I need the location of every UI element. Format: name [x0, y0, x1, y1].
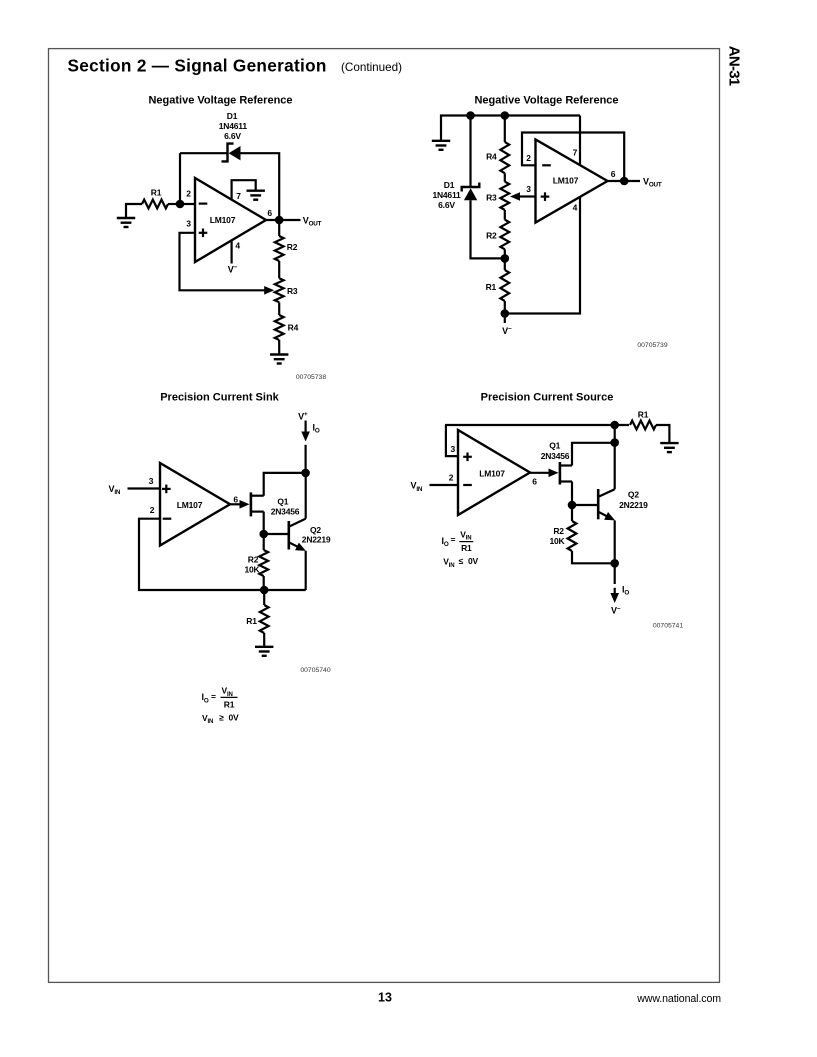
wire junction to R1 [504, 258, 506, 270]
svg-text:≥: ≥ [219, 712, 224, 722]
U3 plus symbol (pin 3) [162, 488, 171, 490]
wire U4 output to Q1 gate [530, 472, 551, 474]
ground symbol (circuit 3) [255, 647, 273, 656]
svg-text:2N3456: 2N3456 [541, 451, 570, 461]
wire Q2 base [264, 533, 288, 535]
zener diode D1 1N4611 (vertical) [462, 183, 480, 201]
ground symbol bottom of divider [270, 355, 288, 364]
svg-text:3: 3 [186, 219, 191, 229]
wire V- rail to U2 pin 4 [505, 197, 580, 313]
arrow into Q1 gate [240, 500, 250, 509]
svg-text:Precision Current Source: Precision Current Source [481, 391, 614, 403]
svg-text:2: 2 [186, 188, 191, 198]
node: R1 / feedback junction [610, 421, 619, 430]
svg-text:(Continued): (Continued) [341, 61, 402, 74]
Q2 emitter arrow [295, 543, 306, 551]
U1 plus symbol (pin 3 non-inverting) [199, 232, 208, 234]
wire R1 to ground [263, 633, 265, 647]
op-amp U1 LM107 [195, 178, 266, 262]
wire arrow to top node [305, 445, 307, 473]
node: output junction (circuit 2) [620, 177, 629, 186]
wire node down to R1 [263, 590, 265, 605]
wire R4 to ground [278, 340, 280, 355]
wire from input ground up to R1 [126, 204, 142, 218]
wire top rail to R1 [445, 424, 629, 426]
equation VIN <= 0V (circuit 4) [443, 556, 478, 569]
node: divider branch junction on rail [501, 111, 510, 120]
svg-text:R2: R2 [248, 555, 259, 565]
svg-text:3: 3 [451, 444, 456, 454]
svg-text:2: 2 [150, 505, 155, 515]
wire drain branch to Q1 [572, 443, 615, 466]
transistor Q2 2N2219 (NPN, circuit 4) [598, 489, 615, 519]
resistor R2 (circuit 2) [500, 220, 509, 250]
wire U3 pin 2 feedback to bottom rail [139, 519, 264, 590]
resistor R2 10K (circuit 3) [259, 550, 268, 576]
wire Q2 emitter down to bottom rail [305, 551, 307, 590]
current arrow IO (circuit 4) [610, 593, 619, 603]
current arrow IO shaft (circuit 4) [614, 588, 616, 594]
node: output junction [275, 216, 284, 225]
svg-text:Precision Current Sink: Precision Current Sink [160, 391, 279, 403]
wire node to R2 bottom [263, 576, 265, 590]
equation IO = VIN / R1 (circuit 3) [202, 686, 238, 710]
node: emitter / R2 bottom junction [610, 559, 619, 568]
op-amp U4 LM107 [458, 430, 530, 515]
wire output node down to R2 [278, 220, 280, 236]
potentiometer R3 (circuit 2) [500, 182, 509, 210]
wire node to U1 pin 2 [180, 203, 195, 205]
wire VIN to U3 pin 3 [128, 487, 161, 489]
svg-text:R3: R3 [486, 192, 497, 202]
svg-text:6: 6 [532, 476, 537, 486]
wire output pin 6 to Vout [266, 219, 301, 221]
wire rail down to R4 [504, 116, 506, 143]
svg-text:LM107: LM107 [479, 469, 505, 479]
svg-text:R2: R2 [486, 230, 497, 240]
svg-text:00705740: 00705740 [300, 667, 330, 674]
node: Q1 source / Q2 base / R2 junction [259, 530, 268, 539]
svg-text:www.national.com: www.national.com [636, 993, 721, 1005]
op-amp U2 LM107 [536, 140, 608, 223]
svg-text:2: 2 [449, 472, 454, 482]
node: inverting input junction [176, 200, 185, 209]
svg-text:3: 3 [149, 476, 154, 486]
U4 minus symbol (pin 2) [463, 484, 472, 486]
wire U1 pin7 to ground [232, 180, 256, 199]
transistor Q2 2N2219 (NPN) [289, 519, 306, 550]
wire VIN to U4 pin 2 [430, 484, 459, 486]
svg-text:6: 6 [233, 494, 238, 504]
svg-text:3: 3 [526, 184, 531, 194]
wire U1 pin3 feedback to R3 wiper [180, 233, 265, 290]
wire R1 to V- node [504, 301, 506, 314]
node: zener branch junction on rail [466, 111, 475, 120]
svg-text:Negative Voltage Reference: Negative Voltage Reference [148, 94, 292, 106]
Q2 emitter arrow (circuit 4) [604, 512, 615, 520]
svg-text:4: 4 [573, 202, 578, 212]
resistor R4 [275, 315, 284, 340]
svg-text:=: = [451, 535, 456, 545]
wire R4 to R3 [504, 173, 506, 182]
wire top feedback rail left segment [180, 152, 228, 154]
resistor R1 (circuit 2) [500, 270, 509, 301]
svg-text:6: 6 [267, 208, 272, 218]
zener diode D1 1N4611 [222, 144, 241, 162]
wire R1 to ground corner [656, 425, 669, 443]
wire Q2 base (circuit 4) [572, 504, 597, 506]
wire R2 top to node [263, 534, 265, 550]
svg-text:2N2219: 2N2219 [619, 500, 648, 510]
svg-text:10K: 10K [245, 565, 261, 575]
ground symbol at pin 7 [247, 191, 265, 200]
svg-text:R1: R1 [638, 409, 649, 419]
svg-text:1N4611: 1N4611 [219, 121, 248, 131]
svg-text:4: 4 [235, 241, 240, 251]
U4 plus symbol (pin 3) [463, 456, 472, 458]
svg-text:00705738: 00705738 [296, 374, 326, 381]
svg-text:6: 6 [611, 169, 616, 179]
resistor R2 10K (circuit 4) [568, 521, 577, 551]
wire R2 down to junction [504, 249, 506, 258]
wire U4 pin 3 up to top rail [446, 425, 458, 456]
wire R2 top to node [571, 505, 573, 521]
wire U3 output to Q1 gate [230, 503, 242, 505]
wire bottom rail right segment [264, 589, 306, 591]
wire node up to zener feedback rail [179, 153, 181, 204]
svg-text:R4: R4 [288, 323, 299, 333]
page border frame [49, 49, 720, 983]
wire Q2 collector up to node [305, 473, 307, 519]
svg-text:1N4611: 1N4611 [432, 190, 461, 200]
node: Q1 drain junction [610, 438, 619, 447]
arrow into Q1 gate (circuit 4) [549, 469, 559, 478]
svg-text:D1: D1 [227, 111, 238, 121]
resistor R1 (input) [142, 200, 168, 209]
svg-text:D1: D1 [444, 180, 455, 190]
wire zener anode down to lower junction [471, 200, 505, 258]
svg-text:R1: R1 [461, 543, 472, 553]
wire U2 pin 2 feedback loop to output [522, 133, 624, 182]
wire IO output stub down [614, 563, 616, 584]
wire top ground rail [441, 116, 580, 141]
wire Q2 emitter down to IO node [614, 520, 616, 563]
svg-text:0V: 0V [229, 712, 240, 722]
resistor R4 (circuit 2) [500, 142, 509, 173]
svg-text:Q2: Q2 [628, 490, 639, 500]
U2 plus symbol (pin 3) [541, 196, 550, 198]
svg-text:R1: R1 [246, 616, 257, 626]
svg-text:13: 13 [378, 991, 392, 1005]
wire node down collector branch [614, 425, 616, 489]
wire R1 to inverting node [168, 203, 180, 205]
wire U2 output to Vout [608, 180, 641, 182]
transistor Q1 2N3456 (FET) [251, 492, 264, 516]
svg-text:10K: 10K [550, 536, 566, 546]
svg-text:7: 7 [573, 147, 578, 157]
svg-text:2N2219: 2N2219 [302, 534, 331, 544]
wire U1 pin4 to V- [231, 240, 233, 263]
svg-text:AN-31: AN-31 [726, 46, 743, 86]
svg-text:R1: R1 [224, 700, 235, 710]
current arrow IO (circuit 3) [301, 432, 310, 442]
potentiometer R3 [275, 278, 284, 302]
resistor R1 (circuit 4, horizontal) [630, 421, 656, 430]
equation VIN >= 0V (circuit 3) [202, 712, 239, 725]
ground symbol top-left rail [432, 141, 450, 150]
svg-text:Q1: Q1 [549, 441, 560, 451]
svg-text:R2: R2 [553, 526, 564, 536]
node: zener/divider junction [501, 254, 510, 263]
R3 wiper arrow [264, 286, 274, 295]
U2 minus symbol (pin 2) [542, 164, 551, 166]
U3 minus symbol (pin 2) [163, 518, 172, 520]
svg-text:R1: R1 [151, 187, 162, 197]
transistor Q1 2N3456 (FET, circuit 4) [560, 462, 572, 485]
U1 minus symbol (pin 2 inverting) [199, 203, 208, 205]
wire V- node stub down [504, 314, 506, 324]
wire Q1 source down to base node [263, 512, 265, 534]
svg-text:≤: ≤ [459, 556, 464, 566]
svg-text:2: 2 [526, 153, 531, 163]
svg-text:6.6V: 6.6V [224, 131, 241, 141]
wire rail down to zener D1 [469, 116, 471, 188]
wire Q1 source down to base node [571, 482, 573, 506]
ground symbol at R1 input [117, 218, 135, 227]
svg-text:=: = [211, 692, 216, 702]
node: R1 top junction [260, 586, 269, 595]
svg-text:R3: R3 [287, 286, 298, 296]
node: Q1 source / Q2 base / R2 junction (circuit 4) [568, 501, 577, 510]
wire R2 to R3 [278, 261, 280, 278]
svg-text:R4: R4 [486, 152, 497, 162]
wire Q1 drain up to top rail [264, 473, 306, 496]
wire top feedback rail right segment [241, 153, 280, 216]
svg-text:Negative Voltage Reference: Negative Voltage Reference [474, 94, 618, 106]
svg-text:LM107: LM107 [177, 500, 203, 510]
node: V- supply junction [501, 309, 510, 318]
svg-text:7: 7 [236, 191, 241, 201]
svg-text:Section 2 — Signal Generation: Section 2 — Signal Generation [68, 55, 327, 75]
node: collector/drain junction [301, 469, 310, 478]
wire R3 to R2 [504, 210, 506, 220]
wire R2 bottom rail [572, 551, 615, 563]
resistor R1 (circuit 3) [260, 605, 269, 633]
ground symbol (circuit 4) [660, 443, 678, 452]
op-amp U3 LM107 [160, 463, 230, 546]
svg-text:0V: 0V [468, 556, 479, 566]
svg-text:R1: R1 [486, 282, 497, 292]
svg-text:2N3456: 2N3456 [271, 507, 300, 517]
svg-text:6.6V: 6.6V [438, 200, 455, 210]
resistor R2 (output divider) [275, 236, 284, 261]
svg-text:R2: R2 [287, 242, 298, 252]
svg-text:00705739: 00705739 [637, 342, 667, 349]
wire R3 wiper to U2 pin 3 [520, 195, 536, 197]
R3 wiper arrow (circuit 2) [510, 192, 520, 201]
wire ground rail to U2 pin 7 [579, 116, 581, 166]
svg-text:00705741: 00705741 [653, 622, 683, 629]
wire V+ stub below label [305, 421, 307, 433]
svg-text:LM107: LM107 [553, 175, 579, 185]
svg-text:Q2: Q2 [310, 525, 321, 535]
svg-text:LM107: LM107 [210, 215, 236, 225]
svg-text:Q1: Q1 [277, 497, 288, 507]
wire R3 to R4 [278, 302, 280, 315]
equation IO = VIN / R1 (circuit 4) [442, 529, 474, 553]
